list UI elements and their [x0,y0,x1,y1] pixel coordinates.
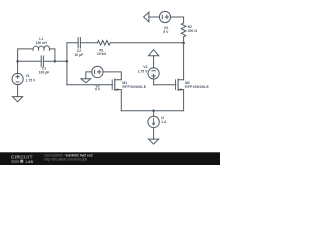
svg-text:V1: V1 [26,74,30,78]
svg-text:1.75 V: 1.75 V [138,69,149,73]
svg-text:RFP30N06LE: RFP30N06LE [185,85,209,89]
svg-text:5 V: 5 V [163,30,169,34]
svg-text:LAB: LAB [26,160,34,164]
svg-text:1.75 V: 1.75 V [26,79,37,83]
svg-text:200 Ω: 200 Ω [188,29,198,33]
svg-text:10 µF: 10 µF [74,53,83,57]
svg-text:5 V: 5 V [95,88,101,92]
svg-text:10 kΩ: 10 kΩ [97,52,107,56]
svg-text:RFP30N06LE: RFP30N06LE [122,85,146,89]
svg-text:V4: V4 [143,65,147,69]
svg-text:http://circuitlab.com/cnmzgd6: http://circuitlab.com/cnmzgd6 [45,158,88,162]
svg-text:100 pF: 100 pF [39,71,50,75]
svg-text:150 nH: 150 nH [36,41,48,45]
svg-text:1 A: 1 A [161,120,167,124]
